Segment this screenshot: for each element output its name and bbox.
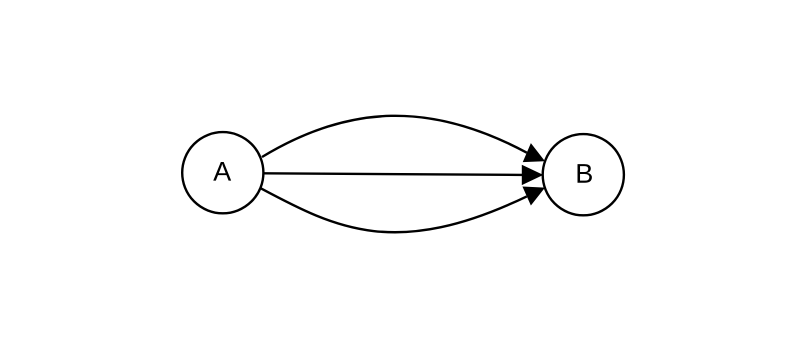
arrowhead top bbox=[524, 144, 545, 162]
node B label bbox=[578, 164, 592, 183]
node B (circle) bbox=[543, 134, 624, 215]
edge A->B middle straight bbox=[264, 173, 523, 175]
node A label bbox=[213, 162, 231, 181]
edge A->B bottom arc bbox=[261, 188, 527, 232]
arrowhead bottom bbox=[523, 187, 544, 205]
arrowhead middle bbox=[522, 166, 542, 185]
edge A->B top arc bbox=[262, 116, 527, 157]
node A (circle) bbox=[182, 132, 263, 213]
